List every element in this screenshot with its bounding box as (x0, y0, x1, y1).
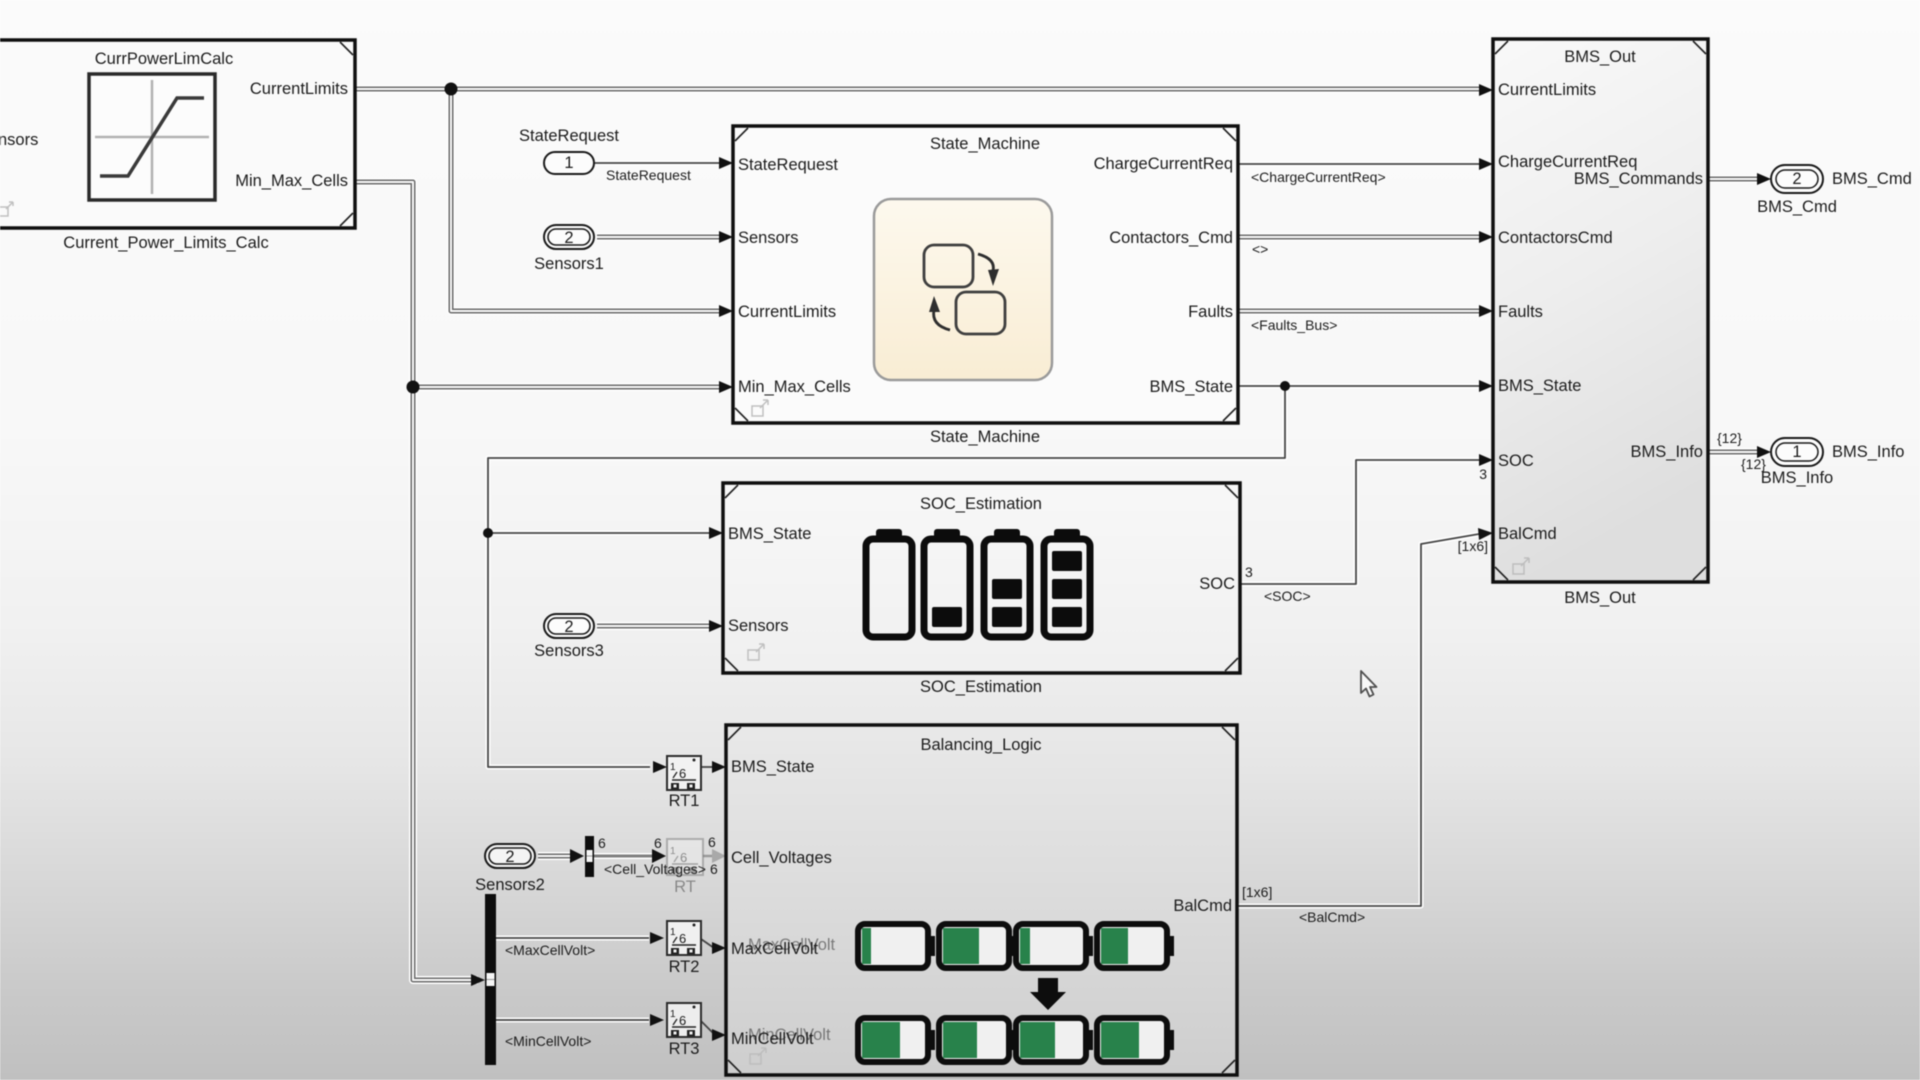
svg-text:6: 6 (708, 834, 716, 850)
svg-text:<MaxCellVolt>: <MaxCellVolt> (505, 942, 595, 958)
svg-text:CurrPowerLimCalc: CurrPowerLimCalc (95, 50, 233, 68)
rate transition RT3 (667, 1003, 701, 1058)
svg-text:SOC: SOC (1199, 575, 1235, 593)
battery 4 three bars (1044, 529, 1090, 637)
wire Sensors2 bus to small bus selector (538, 849, 584, 863)
output port 1 BMS_Info (1761, 438, 1905, 487)
svg-text:ContactorsCmd: ContactorsCmd (1498, 229, 1613, 247)
wire BMS_Info: BMS_Out to port BMS_Info (1708, 446, 1771, 458)
svg-text:BMS_Commands: BMS_Commands (1574, 170, 1703, 188)
svg-text:Min_Max_Cells: Min_Max_Cells (235, 172, 348, 190)
svg-text:RT: RT (674, 878, 696, 896)
svg-text:6: 6 (654, 835, 662, 851)
svg-text:{12}: {12} (1717, 430, 1742, 446)
svg-text:SOC: SOC (1498, 452, 1534, 470)
mouse cursor (1361, 671, 1377, 697)
svg-text:StateRequest: StateRequest (738, 156, 838, 174)
subsystem State_Machine (733, 126, 1238, 446)
svg-text:<BalCmd>: <BalCmd> (1299, 909, 1365, 925)
rate transition RT2 (667, 921, 701, 976)
svg-text:BMS_Out: BMS_Out (1564, 589, 1636, 607)
svg-text:RT1: RT1 (669, 792, 700, 810)
svg-text:2: 2 (505, 848, 514, 866)
junction Min_Max_Cells branch (407, 381, 420, 394)
wire SOC single: SOC_Estimation to BMS_Out (1240, 454, 1493, 584)
svg-text:2: 2 (1792, 170, 1801, 188)
wire BMS_Commands: BMS_Out to port BMS_Cmd (1708, 173, 1771, 185)
wire BalCmd single: Balancing_Logic to BMS_Out (1237, 528, 1493, 906)
svg-text:BMS_Out: BMS_Out (1564, 48, 1636, 66)
svg-text:StateRequest: StateRequest (519, 127, 619, 145)
horizontal battery row 1 (858, 924, 1174, 968)
svg-text:ChargeCurrentReq: ChargeCurrentReq (1094, 155, 1233, 173)
svg-text:1: 1 (670, 1009, 676, 1020)
svg-text:Sensors1: Sensors1 (534, 255, 604, 273)
wire Cell_Voltages: bus selector out through RT to Balancing (594, 849, 726, 863)
wire Min_Max_Cells bus: CurrPower out down to bus selector, branch to State_Machine (355, 182, 733, 986)
svg-text:1: 1 (564, 154, 573, 172)
badge content preview (748, 644, 764, 660)
rate transition RT1 (667, 756, 701, 810)
svg-text:<MinCellVolt>: <MinCellVolt> (505, 1033, 591, 1049)
wire StateRequest single (594, 157, 733, 169)
svg-text:{12}: {12} (1741, 456, 1766, 472)
svg-text:RT2: RT2 (669, 958, 700, 976)
battery 2 one bar (924, 529, 970, 637)
bus selector large (485, 894, 496, 1065)
svg-text:Min_Max_Cells: Min_Max_Cells (738, 378, 851, 396)
svg-text:<ChargeCurrentReq>: <ChargeCurrentReq> (1251, 169, 1386, 185)
svg-text:BMS_State: BMS_State (1150, 378, 1233, 396)
badge content preview (750, 1048, 766, 1064)
wire ChargeCurrentReq single (1238, 158, 1493, 170)
junction BMS_State at BMS_Out run (1280, 381, 1290, 391)
svg-text:2: 2 (564, 229, 573, 247)
svg-text:2: 2 (564, 618, 573, 636)
svg-text:Balancing_Logic: Balancing_Logic (920, 736, 1041, 754)
bus selector small (585, 836, 594, 877)
input port 1 StateRequest (519, 127, 691, 183)
svg-text:6: 6 (679, 931, 686, 946)
wire RT1 out to Balancing BMS_State port (701, 761, 726, 773)
down arrow between battery rows (1030, 978, 1066, 1010)
svg-text:BMS_State: BMS_State (1498, 377, 1581, 395)
junction BMS_State at SOC branch (483, 528, 493, 538)
svg-text:SOC_Estimation: SOC_Estimation (920, 495, 1042, 513)
output port 2 BMS_Cmd (1757, 165, 1912, 216)
subsystem SOC_Estimation (723, 483, 1240, 696)
svg-text:<Cell_Voltages>: <Cell_Voltages> (604, 861, 706, 877)
svg-text:BMS_Info: BMS_Info (1761, 469, 1833, 487)
svg-text:<>: <> (1252, 241, 1268, 257)
svg-text:1: 1 (670, 762, 676, 773)
svg-text:Faults: Faults (1498, 303, 1543, 321)
battery 3 two bars (984, 529, 1030, 637)
svg-text:BMS_State: BMS_State (731, 758, 814, 776)
horizontal battery row 2 (858, 1018, 1174, 1062)
svg-text:ChargeCurrentReq: ChargeCurrentReq (1498, 153, 1637, 171)
input port 2 Sensors1 (534, 225, 604, 273)
svg-text:StateRequest: StateRequest (606, 167, 691, 183)
svg-text:Sensors: Sensors (738, 229, 799, 247)
svg-text:1: 1 (1792, 443, 1801, 461)
svg-text:BMS_State: BMS_State (728, 525, 811, 543)
svg-text:RT3: RT3 (669, 1040, 700, 1058)
svg-text:6: 6 (598, 835, 606, 851)
svg-text:Faults: Faults (1188, 303, 1233, 321)
svg-text:Sensors3: Sensors3 (534, 642, 604, 660)
svg-text:State_Machine: State_Machine (930, 428, 1040, 446)
wire Faults bus (1238, 305, 1493, 317)
svg-text:CurrentLimits: CurrentLimits (250, 80, 348, 98)
saturation icon (89, 74, 215, 200)
svg-text:BMS_Info: BMS_Info (1631, 443, 1703, 461)
svg-text:Current_Power_Limits_Calc: Current_Power_Limits_Calc (63, 234, 268, 252)
svg-text:CurrentLimits: CurrentLimits (1498, 81, 1596, 99)
svg-text:6: 6 (710, 861, 718, 877)
svg-text:[1x6]: [1x6] (1242, 884, 1272, 900)
svg-text:[1x6]: [1x6] (1458, 538, 1488, 554)
svg-text:BMS_Info: BMS_Info (1832, 443, 1904, 461)
rate transition RT faded (667, 839, 703, 896)
svg-text:BalCmd: BalCmd (1498, 525, 1557, 543)
battery 1 empty (866, 529, 912, 637)
svg-text:1: 1 (670, 927, 676, 938)
svg-text:MinCellVolt: MinCellVolt (731, 1030, 814, 1048)
wire Sensors3 bus (597, 620, 723, 632)
svg-text:1: 1 (670, 846, 676, 857)
svg-text:Contactors_Cmd: Contactors_Cmd (1109, 229, 1233, 247)
svg-text:nsors: nsors (0, 131, 38, 149)
wire BMS_State single: State_Machine to BMS_Out with branches to SOC_Estimation and RT1 (488, 380, 1493, 773)
stateflow chart icon (874, 199, 1052, 380)
wire Sensors1 bus (597, 231, 733, 243)
svg-text:BalCmd: BalCmd (1173, 897, 1232, 915)
svg-text:CurrentLimits: CurrentLimits (738, 303, 836, 321)
subsystem BMS_Out (1493, 39, 1708, 607)
subsystem Balancing_Logic (726, 725, 1237, 1075)
svg-text:MaxCellVolt: MaxCellVolt (731, 940, 819, 958)
svg-text:BMS_Cmd: BMS_Cmd (1757, 198, 1837, 216)
battery icons vertical (866, 529, 1090, 637)
svg-text:State_Machine: State_Machine (930, 135, 1040, 153)
subsystem Current_Power_Limits_Calc (0, 40, 355, 252)
svg-text:6: 6 (679, 766, 686, 781)
junction CurrentLimits branch (445, 83, 458, 96)
badge content preview (1513, 558, 1529, 574)
svg-text:6: 6 (679, 1013, 686, 1028)
svg-text:Sensors: Sensors (728, 617, 789, 635)
svg-text:3: 3 (1245, 564, 1253, 580)
svg-text:3: 3 (1479, 466, 1487, 482)
wire MinCellVolt: big bus selector to RT3 to Balancing (496, 1014, 726, 1041)
wire MaxCellVolt: big bus selector to RT2 to Balancing (496, 932, 726, 954)
input port 2 Sensors3 (534, 614, 604, 660)
badge content preview (752, 400, 768, 416)
wire Contactors_Cmd bus (1238, 231, 1493, 243)
input port 2 Sensors2 (475, 844, 545, 894)
wire CurrentLimits bus: CurrPower out to BMS_Out, branch to State_Machine (355, 84, 1493, 317)
svg-text:<Faults_Bus>: <Faults_Bus> (1251, 317, 1337, 333)
svg-text:<SOC>: <SOC> (1264, 588, 1311, 604)
svg-text:Cell_Voltages: Cell_Voltages (731, 849, 832, 867)
svg-text:BMS_Cmd: BMS_Cmd (1832, 170, 1912, 188)
badge content preview (0, 202, 13, 216)
svg-text:SOC_Estimation: SOC_Estimation (920, 678, 1042, 696)
svg-text:Sensors2: Sensors2 (475, 876, 545, 894)
